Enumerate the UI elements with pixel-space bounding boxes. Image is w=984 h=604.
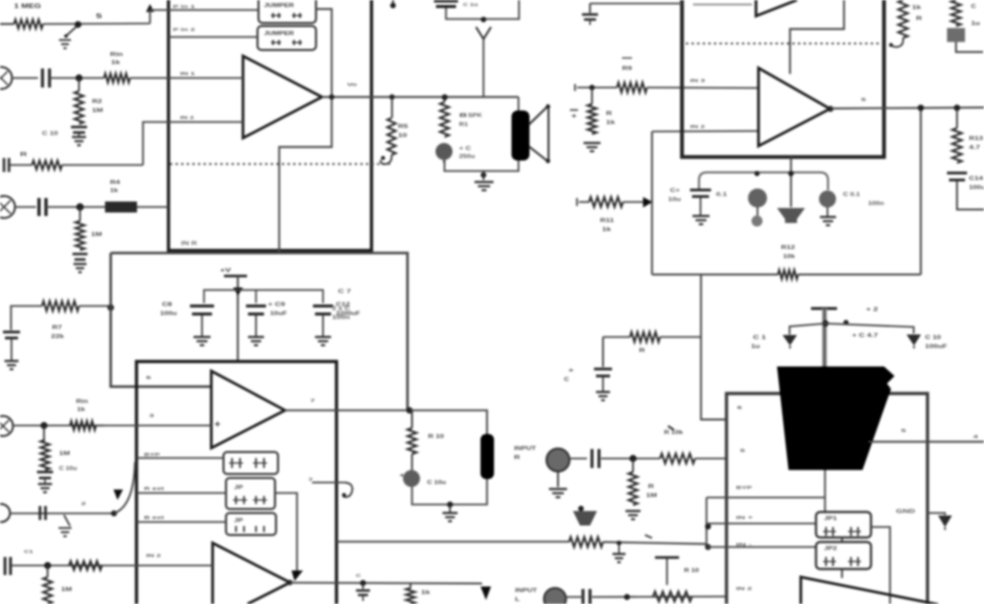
svg-text:R: R — [20, 152, 27, 158]
svg-text:C 1: C 1 — [753, 335, 766, 341]
input connector row 2 — [4, 158, 9, 172]
resistor R7 22k — [42, 301, 79, 311]
speaker SP1 — [512, 111, 530, 161]
capacitor C1 coupling — [43, 69, 50, 88]
bracket pins — [706, 498, 708, 548]
node out2 — [360, 580, 366, 586]
ink blob over op-amp — [777, 367, 895, 471]
wire Bext pin — [137, 521, 227, 523]
+V stem wire — [237, 276, 239, 362]
svg-text:SPK: SPK — [468, 113, 483, 119]
capacitor C13 electrolytic — [436, 143, 453, 160]
ground — [475, 182, 494, 190]
blob stem down — [824, 470, 826, 512]
capacitor C22 coupling — [592, 449, 599, 468]
svg-text:C 0.1: C 0.1 — [843, 192, 860, 198]
wire U2 output — [828, 106, 834, 112]
svg-text:C12: C12 — [336, 302, 350, 308]
input jack INPUT L — [544, 588, 566, 604]
resistor R11 feedback input — [579, 201, 589, 203]
capacitor C3 coupling — [39, 198, 46, 216]
svg-text:IN 2: IN 2 — [690, 124, 706, 130]
svg-text:C: C — [564, 377, 570, 383]
resistor R16 1M shunt — [43, 426, 45, 441]
svg-text:5: 5 — [901, 428, 907, 434]
svg-text:1k: 1k — [110, 188, 118, 194]
wire IN+ pin — [707, 523, 817, 525]
svg-text:C+: C+ — [670, 188, 680, 194]
jumper block J4 — [226, 478, 275, 509]
svg-text:R9: R9 — [622, 66, 632, 72]
node zobel bottom — [481, 172, 487, 178]
wire boost to output — [483, 39, 485, 97]
svg-text:1k: 1k — [111, 60, 120, 66]
capacitor C6 boost — [434, 0, 458, 3]
capacitor C9 10uF — [246, 305, 266, 308]
top stub node — [392, 0, 394, 8]
svg-text:+ C 4.7: + C 4.7 — [852, 333, 878, 339]
svg-text:1k: 1k — [602, 227, 611, 233]
svg-text:R: R — [639, 348, 646, 354]
wire to U1 — [137, 206, 169, 208]
supply loop wires — [111, 253, 212, 387]
svg-text:R1: R1 — [459, 122, 468, 128]
svg-text:C 7: C 7 — [338, 289, 351, 295]
svg-text:C 10u: C 10u — [427, 480, 446, 486]
svg-text:Vo: Vo — [347, 82, 357, 88]
svg-text:1u: 1u — [971, 21, 980, 27]
resistor R3 — [10, 164, 32, 166]
svg-text:5: 5 — [96, 14, 103, 20]
resistor R17 1k hang — [410, 584, 412, 589]
wire input row3 — [13, 425, 104, 427]
capacitor C5 — [3, 331, 20, 334]
capacitor C23 coupling — [583, 589, 590, 604]
feedback wire upper op-amp — [790, 0, 844, 74]
resistor R21 1M shunt — [632, 459, 634, 473]
svg-text:1k: 1k — [421, 590, 430, 596]
svg-text:22k: 22k — [51, 334, 64, 340]
op-amp A2 upper partial — [756, 0, 797, 16]
svg-text:R5: R5 — [398, 124, 408, 130]
input jack INPUT R — [547, 449, 570, 472]
wire BYP pin — [137, 457, 224, 459]
jumper block J5 — [226, 513, 276, 535]
svg-text:6: 6 — [737, 405, 743, 411]
wire Rext pin — [137, 492, 227, 494]
svg-text:+: + — [399, 473, 405, 479]
ground — [72, 137, 86, 145]
resistor R10 1k shunt — [591, 88, 593, 105]
svg-text:C 10: C 10 — [42, 131, 58, 137]
svg-text:R13: R13 — [969, 136, 983, 142]
+V bar — [224, 275, 247, 278]
svg-text:R: R — [514, 455, 521, 461]
capacitor C2 — [71, 126, 87, 129]
arrow junction on stem — [233, 288, 243, 296]
svg-text:JUMPER: JUMPER — [264, 31, 295, 37]
resistor R6 1M shunt — [79, 207, 81, 221]
svg-text:Rin: Rin — [76, 399, 88, 405]
svg-text:IN +: IN + — [736, 515, 753, 521]
node supply-left — [107, 304, 114, 311]
capacitor C15 top decouple — [590, 3, 682, 5]
svg-text:BYP: BYP — [736, 485, 753, 491]
resistor R15 + block top right — [951, 0, 961, 26]
svg-text:C8: C8 — [162, 302, 172, 308]
node INPUT L — [624, 594, 630, 600]
svg-text:+ 2: + 2 — [866, 307, 878, 313]
node zobel top — [442, 94, 448, 100]
svg-text:B ext: B ext — [144, 515, 165, 521]
op-amp IC box U3 — [137, 362, 337, 604]
jumper block J6 — [816, 512, 871, 538]
jumper block J3 — [224, 452, 279, 474]
zobel2 loop — [410, 410, 488, 434]
svg-text:C 10u: C 10u — [59, 466, 77, 472]
dotted net line right — [686, 43, 879, 45]
svg-text:INPUT: INPUT — [514, 446, 536, 452]
feedback net wires — [651, 132, 653, 275]
capacitor C8 100uF — [190, 305, 214, 308]
capacitor C17 electrolytic — [748, 189, 767, 208]
gain jumper block J2 — [258, 26, 317, 50]
arrow node feedback — [643, 197, 653, 208]
svg-text:JP: JP — [234, 518, 244, 524]
bus wire to U4 — [337, 541, 570, 543]
jumper block J7 — [816, 542, 871, 569]
input jack IN R — [0, 196, 15, 218]
svg-text:2: 2 — [81, 501, 87, 507]
svg-text:1M: 1M — [61, 587, 72, 593]
svg-text:R: R — [916, 16, 923, 22]
boost cap loop wire — [446, 0, 519, 19]
bypass rail under U2 — [790, 157, 792, 207]
connector bars — [40, 506, 46, 520]
resistor R2 1M shunt — [78, 78, 80, 91]
op-amp A4 triangle — [211, 371, 285, 448]
capacitor C20 electrolytic — [403, 470, 420, 487]
wire to right cap — [826, 324, 914, 334]
op-amp A6 triangle partial — [801, 577, 938, 604]
svg-text:BYP: BYP — [144, 452, 161, 458]
svg-text:1k: 1k — [606, 120, 615, 126]
svg-text:1M: 1M — [646, 493, 657, 499]
chassis ground mid — [578, 506, 584, 512]
svg-text:1M: 1M — [92, 108, 103, 114]
svg-text:100u: 100u — [160, 311, 177, 317]
svg-text:1M: 1M — [59, 451, 70, 457]
svg-text:IN 2: IN 2 — [736, 586, 753, 592]
svg-text:1M: 1M — [91, 232, 102, 238]
node IN R — [76, 203, 84, 211]
node INPUT R — [629, 455, 636, 462]
svg-text:5: 5 — [861, 97, 867, 103]
resistor R8 2.7 — [440, 102, 449, 137]
op-amp A1 triangle — [243, 56, 322, 138]
svg-text:INPUT: INPUT — [515, 588, 537, 594]
svg-text:IN R: IN R — [181, 241, 198, 247]
svg-text:P in 1: P in 1 — [173, 4, 196, 9]
svg-text:2200uF: 2200uF — [336, 311, 360, 317]
capacitor C18 electrolytic — [819, 191, 836, 208]
ground arrow left — [783, 335, 798, 346]
svg-text:R12: R12 — [781, 245, 795, 251]
svg-text:1u: 1u — [751, 344, 760, 350]
wire inverting input IN L — [169, 77, 244, 79]
svg-text:R 10: R 10 — [684, 568, 699, 574]
svg-text:100uF: 100uF — [925, 344, 947, 350]
svg-text:+ C9: + C9 — [268, 302, 285, 308]
node R9 — [589, 85, 595, 91]
node zobel2 gnd — [447, 502, 453, 508]
input jack 3 — [0, 416, 13, 436]
svg-text:R: R — [606, 111, 613, 117]
resistor R14 top right — [898, 0, 908, 38]
arrow out2 — [481, 587, 492, 601]
resistor R5 1k on output — [391, 97, 393, 118]
+V stem — [822, 309, 827, 367]
svg-text:+: + — [568, 368, 574, 374]
wire jumper to apex — [871, 527, 890, 604]
speaker bar SP2 — [481, 434, 495, 479]
capacitor C16 — [690, 189, 711, 192]
gain jumper block J1 — [259, 0, 317, 23]
capacitor C19 — [37, 471, 53, 474]
svg-text:JP2: JP2 — [824, 546, 837, 552]
node output U1 — [329, 94, 334, 99]
op-amp A5 triangle partial — [213, 543, 290, 604]
ground — [74, 264, 87, 272]
svg-text:R2: R2 — [92, 99, 102, 105]
svg-text:IN 2: IN 2 — [180, 115, 195, 121]
resistor R22 — [653, 592, 692, 602]
svg-text:1k: 1k — [912, 5, 921, 11]
svg-text:+ C: + C — [459, 146, 472, 152]
node out U2 — [918, 105, 924, 111]
svg-text:5: 5 — [740, 448, 746, 454]
svg-text:100u: 100u — [969, 185, 984, 191]
svg-text:8: 8 — [459, 113, 468, 119]
wire IN R — [15, 206, 36, 208]
stub between jumpers — [841, 538, 843, 543]
resistor Rin 1k — [104, 74, 130, 83]
input jack IN L — [0, 67, 12, 89]
resistor Rin2 — [70, 421, 96, 430]
ground — [5, 361, 19, 369]
wire U4 output — [868, 441, 984, 443]
ground arrow right — [907, 335, 922, 346]
diode arrow down — [476, 27, 491, 39]
arc to BYP pin — [114, 462, 135, 513]
svg-text:10k: 10k — [783, 254, 795, 260]
wire to IN2 corner — [62, 164, 143, 166]
svg-text:C1: C1 — [24, 549, 33, 555]
capacitor C21 supply — [602, 337, 604, 367]
wire to left cap — [790, 324, 826, 335]
capacitor C12 2200uF — [313, 305, 333, 308]
op-amp IC box U4 — [727, 394, 928, 604]
node BYP — [111, 510, 117, 516]
svg-text:+: + — [571, 114, 578, 120]
svg-text:C: C — [356, 573, 362, 579]
wire to pin6 lower IC — [701, 275, 727, 420]
wire upper input — [693, 4, 752, 6]
wire U3 output 1 — [285, 409, 410, 411]
node bus — [617, 541, 622, 546]
capacitor C4 — [73, 253, 88, 256]
svg-text:GND: GND — [896, 509, 915, 515]
node boost — [481, 17, 487, 23]
svg-text:JP: JP — [234, 485, 244, 491]
svg-text:JP1: JP1 — [824, 516, 837, 522]
op-amp IC box U2 — [682, 0, 884, 157]
svg-text:L: L — [515, 597, 520, 603]
svg-text:R: R — [648, 484, 655, 490]
ground — [584, 143, 601, 151]
svg-text:+V: +V — [220, 268, 232, 274]
svg-text:R 10k: R 10k — [664, 430, 683, 436]
node row3 — [41, 422, 48, 429]
input row4 cap — [5, 557, 11, 575]
svg-text:3: 3 — [149, 413, 155, 419]
svg-text:7: 7 — [310, 398, 316, 404]
op-amp IC box U1 — [169, 0, 372, 251]
wire R7 right to node — [79, 305, 111, 307]
svg-text:R11: R11 — [600, 218, 614, 224]
cap chain under node — [362, 583, 364, 589]
bias tee — [655, 556, 679, 558]
arrow junction up — [146, 4, 154, 12]
svg-text:IN 2: IN 2 — [146, 553, 162, 559]
svg-text:4.7: 4.7 — [969, 145, 980, 151]
svg-text:R ext: R ext — [144, 486, 165, 492]
dotted net line left — [170, 163, 390, 165]
resistor R19 10 — [408, 428, 417, 454]
svg-text:10: 10 — [398, 133, 407, 139]
svg-text:IN 3: IN 3 — [690, 78, 706, 84]
wire U3 output 2 — [290, 582, 482, 585]
svg-text:JUMPER: JUMPER — [264, 3, 295, 9]
wire R7 left to C5 — [11, 306, 42, 330]
wire non-inverting input — [143, 122, 243, 165]
svg-text:1k: 1k — [77, 407, 85, 413]
chassis ground U2 — [777, 208, 805, 223]
svg-text:100n: 100n — [868, 201, 884, 207]
resistor R13 right chain — [956, 108, 958, 128]
wire pin8 to J2 — [169, 36, 258, 38]
wire U1 output — [322, 96, 445, 98]
switch S1 to ground — [75, 21, 82, 28]
svg-text:R4: R4 — [110, 180, 120, 186]
svg-text:10uF: 10uF — [270, 311, 287, 317]
svg-text:P in 2: P in 2 — [173, 27, 196, 32]
node row4 — [44, 562, 51, 569]
wire IN- pin — [707, 546, 817, 548]
input jack row BYP — [0, 504, 10, 522]
zobel loop — [445, 96, 519, 98]
svg-text:0.1: 0.1 — [716, 192, 727, 198]
wire pin1 to J1 — [169, 9, 259, 11]
svg-text:IN 1: IN 1 — [180, 71, 196, 77]
resistor R18 1M shunt — [47, 566, 49, 578]
svg-text:4: 4 — [973, 434, 979, 440]
svg-text:IN -: IN - — [736, 542, 753, 548]
svg-text:Rin: Rin — [110, 52, 123, 58]
node +V — [822, 320, 828, 326]
switch to ground — [64, 515, 70, 526]
svg-text:10u: 10u — [668, 197, 681, 203]
node right branch — [843, 320, 848, 325]
wire to J1 row — [43, 23, 150, 26]
wire IN L — [12, 77, 38, 79]
node out1 — [406, 407, 412, 413]
resistor Rin3 — [69, 561, 102, 570]
feedback wire J1 to output node — [279, 9, 332, 253]
capacitor C14 — [947, 172, 967, 175]
resistor R1 1MEG — [0, 23, 14, 25]
svg-text:C 10: C 10 — [925, 335, 941, 341]
svg-text:250u: 250u — [459, 154, 475, 160]
node IN L — [75, 74, 82, 81]
bypass rail — [204, 290, 323, 303]
svg-text:C14: C14 — [969, 176, 983, 182]
+V bar top — [811, 307, 837, 310]
svg-text:6: 6 — [146, 375, 152, 381]
svg-text:1 MEG: 1 MEG — [14, 4, 41, 10]
svg-text:R7: R7 — [52, 325, 62, 331]
curl connector under R5 — [381, 155, 392, 164]
svg-text:C 1u: C 1u — [463, 2, 478, 8]
svg-text:C: C — [971, 4, 977, 10]
resistor R20 — [660, 454, 695, 464]
supply wire right — [603, 336, 630, 338]
wire J4 to A5 apex — [275, 493, 297, 573]
wire INPUT R — [570, 458, 588, 460]
svg-text:R 10: R 10 — [428, 434, 444, 440]
op-amp A3 triangle — [759, 68, 831, 146]
wire input row4 — [12, 565, 213, 567]
resistor R4 block — [105, 202, 137, 213]
